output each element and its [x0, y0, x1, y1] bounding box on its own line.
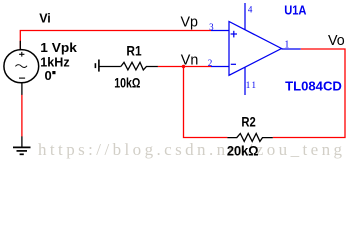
svg-text:11: 11	[246, 80, 258, 90]
svg-text:R2: R2	[241, 115, 256, 130]
svg-text:3: 3	[209, 22, 214, 32]
svg-text:U1A: U1A	[284, 4, 306, 18]
svg-text:Vn: Vn	[181, 52, 199, 68]
svg-text:1: 1	[284, 39, 289, 50]
svg-text:0: 0	[45, 68, 52, 83]
svg-text:Vp: Vp	[181, 15, 199, 31]
svg-text:Vi: Vi	[39, 11, 51, 25]
svg-text:TL084CD: TL084CD	[285, 79, 342, 94]
svg-text:10kΩ: 10kΩ	[114, 75, 140, 90]
svg-text:1 Vpk: 1 Vpk	[40, 40, 77, 55]
svg-text:R1: R1	[126, 44, 141, 59]
svg-text:Vo: Vo	[328, 33, 345, 49]
svg-text:2: 2	[208, 58, 213, 68]
svg-text:https://blog.csdn.net/zou_teng: https://blog.csdn.net/zou_teng	[38, 140, 343, 159]
svg-text:4: 4	[248, 5, 253, 15]
svg-text:20kΩ: 20kΩ	[227, 144, 259, 159]
